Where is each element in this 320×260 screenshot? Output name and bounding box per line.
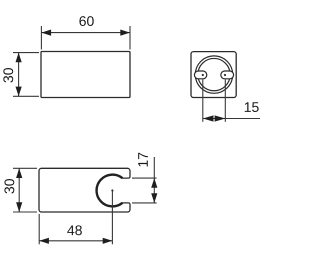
- dim 30 side label: [4, 179, 14, 193]
- dim 17 extension line top: [132, 177, 157, 179]
- dim 30 side arrow down: [16, 202, 22, 212]
- left mounting tab: [194, 71, 206, 79]
- dim 48 line: [39, 240, 112, 242]
- dim 15 label: [245, 102, 259, 112]
- dim 17 label: [138, 153, 148, 167]
- dim 17 arrow up: [151, 178, 157, 188]
- dim 30 side line: [18, 168, 20, 212]
- dim 15 arrow left: [203, 115, 214, 121]
- left tab hole: [202, 74, 204, 76]
- dim 60 extension line left: [40, 26, 42, 50]
- dim 48 extension line left: [38, 214, 40, 244]
- side view body with hook notch: [39, 168, 130, 212]
- dim 48 arrow right: [103, 238, 113, 244]
- dim 60 line: [41, 32, 130, 34]
- dim 30 front arrow down: [16, 87, 22, 97]
- dim 15 extension line right: [224, 80, 226, 122]
- dim 60 label: [79, 16, 93, 26]
- dim 30 side extension line top: [13, 167, 37, 169]
- right mounting tab: [221, 71, 234, 79]
- dim 60 arrow left: [41, 30, 51, 36]
- dim 15 extension line left: [202, 80, 204, 122]
- dim 30 front line: [18, 53, 20, 97]
- dim 15 line with right leader: [203, 118, 260, 120]
- front view body (60x30 rectangle): [41, 52, 130, 98]
- back view inner circle: [198, 58, 230, 90]
- dim 60 arrow right: [120, 30, 130, 36]
- side view hook circle (thick C): [97, 175, 123, 207]
- dim 17 arrow down: [151, 193, 157, 203]
- dim 15 arrow right: [215, 115, 226, 121]
- dim 48 arrow left: [39, 238, 49, 244]
- dim 17 line: [153, 157, 155, 203]
- back view plate (square): [191, 52, 236, 98]
- side view center extension line: [111, 192, 113, 245]
- dim 48 label: [67, 225, 82, 235]
- side view center mark: [111, 189, 113, 191]
- dim 60 extension line right: [129, 26, 131, 50]
- dim 30 front arrow up: [16, 53, 22, 63]
- dim 30 side extension line bottom: [13, 211, 37, 213]
- dim 17 extension line bottom: [132, 202, 157, 204]
- dim 30 side arrow up: [16, 168, 22, 178]
- right tab hole: [224, 74, 226, 76]
- dim 30 front extension line bottom: [13, 95, 39, 97]
- dim 30 front extension line top: [13, 52, 39, 54]
- dim 30 front label: [3, 68, 13, 82]
- back view outer circle: [195, 56, 232, 93]
